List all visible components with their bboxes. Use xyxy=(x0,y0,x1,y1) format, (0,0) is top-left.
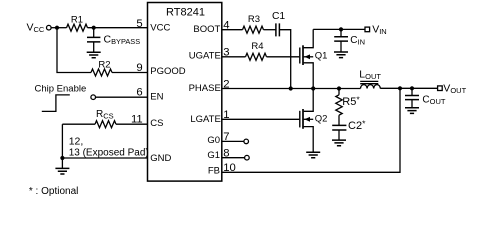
svg-text:FB: FB xyxy=(208,166,220,177)
terminal EN circle xyxy=(91,95,96,100)
wire C1 down to PHASE node xyxy=(279,30,290,89)
svg-text:RCS: RCS xyxy=(96,109,114,121)
wire BOOT pin to R3 xyxy=(222,29,243,31)
node exposed pad ground tee xyxy=(60,156,64,160)
node CBYPASS tap xyxy=(92,26,96,30)
wire C2 to ground xyxy=(338,130,340,140)
resistor R5 xyxy=(336,95,342,115)
wire RCS to CS pin xyxy=(116,123,148,125)
transistor Q2 source stub to ground xyxy=(304,127,314,152)
svg-text:R1: R1 xyxy=(71,14,83,25)
ground (COUT) xyxy=(405,108,419,114)
node R5 tap on PHASE xyxy=(337,86,341,90)
wire G1 pin stub xyxy=(222,157,245,159)
transistor Q2 body arrow xyxy=(304,117,310,122)
svg-text:R5*: R5* xyxy=(342,95,360,108)
transistor Q1 source stub down to PHASE xyxy=(304,63,314,89)
wire CBYPASS to ground xyxy=(93,42,95,52)
capacitor C1 xyxy=(276,23,280,36)
wire FB pin to VOUT node xyxy=(222,88,400,172)
node FB tap on VOUT xyxy=(398,86,402,90)
wire LGATE pin to Q2 gate xyxy=(222,118,299,120)
svg-text:13 (Exposed Pad): 13 (Exposed Pad) xyxy=(69,148,149,159)
wire COUT to ground xyxy=(411,100,413,108)
wire CIN stem xyxy=(340,29,342,36)
wire pad ground stem xyxy=(61,158,63,168)
svg-text:G0: G0 xyxy=(207,135,220,146)
svg-text:Chip Enable: Chip Enable xyxy=(35,83,87,94)
svg-text:PHASE: PHASE xyxy=(189,83,221,94)
wire COUT stem xyxy=(411,88,413,95)
ground (exposed pad) xyxy=(55,168,69,174)
wire Q1 drain to VIN terminal xyxy=(313,28,365,30)
terminal G0 circle xyxy=(244,139,249,144)
wire CS corner to RCS xyxy=(62,123,95,125)
wire EN terminal to EN pin xyxy=(96,96,148,98)
terminal G1 circle xyxy=(245,155,250,160)
svg-text:Q1: Q1 xyxy=(315,51,328,62)
transistor Q1 body arrow xyxy=(304,54,310,59)
ground (Q2 source) xyxy=(306,152,320,158)
capacitor CIN xyxy=(334,37,348,41)
transistor Q2 gate bar xyxy=(299,111,301,128)
inductor LOUT core bars xyxy=(360,81,378,83)
wire R5 stem xyxy=(338,89,340,95)
capacitor CBYPASS xyxy=(87,37,100,42)
node Q1/Q2 PHASE junction xyxy=(311,86,315,90)
resistor R2 xyxy=(91,69,112,76)
chip enable step symbol xyxy=(42,95,70,112)
wire UGATE pin to R4 xyxy=(222,56,246,58)
svg-text:Q2: Q2 xyxy=(315,113,328,124)
ground (C2) xyxy=(332,140,346,146)
transistor Q1 drain stub xyxy=(304,29,314,47)
wire R5 to C2 xyxy=(338,115,340,125)
terminal VOUT square xyxy=(438,86,443,91)
svg-text:R2: R2 xyxy=(98,60,110,71)
transistor Q1 channel bar xyxy=(302,45,304,65)
svg-text:UGATE: UGATE xyxy=(189,50,221,61)
svg-text:GND: GND xyxy=(150,153,171,164)
wire CS branch down to pad ground xyxy=(61,124,63,158)
svg-text:PGOOD: PGOOD xyxy=(150,66,186,77)
svg-text:6: 6 xyxy=(136,86,142,98)
svg-text:R4: R4 xyxy=(251,41,263,52)
terminal VCC circle xyxy=(47,25,52,30)
transistor Q2 channel bar xyxy=(302,109,304,129)
svg-text:G1: G1 xyxy=(207,150,220,161)
svg-text:R3: R3 xyxy=(248,14,260,25)
wire VCC terminal to R1 xyxy=(51,27,66,29)
svg-text:LOUT: LOUT xyxy=(359,69,381,82)
inductor LOUT coils xyxy=(361,85,381,89)
transistor Q1 body stub xyxy=(304,56,314,58)
svg-text:VOUT: VOUT xyxy=(443,83,466,96)
node CIN tap on VIN xyxy=(339,27,343,31)
svg-text:EN: EN xyxy=(150,92,163,103)
terminal VIN square xyxy=(365,27,370,32)
ground (CBYPASS) xyxy=(87,52,101,58)
svg-text:RT8241: RT8241 xyxy=(166,6,205,18)
svg-text:BOOT: BOOT xyxy=(193,24,220,35)
transistor Q1 gate bar xyxy=(299,48,301,64)
svg-text:COUT: COUT xyxy=(422,94,445,106)
wire R4 to Q1 gate xyxy=(267,56,300,58)
capacitor C2 xyxy=(332,125,346,130)
ground (CIN) xyxy=(334,52,348,58)
wire R1 to VCC pin xyxy=(88,27,148,29)
svg-text:CS: CS xyxy=(150,118,163,129)
transistor Q2 drain stub up to PHASE xyxy=(304,89,314,112)
svg-text:C1: C1 xyxy=(272,11,285,22)
op-amp U1 RT8241 IC body xyxy=(148,3,222,182)
wire G0 pin stub xyxy=(222,140,244,142)
wire CBYPASS stem xyxy=(93,28,95,38)
node VCC junction at R1 left xyxy=(55,26,59,30)
wire VCC branch down to R2 row xyxy=(57,28,91,73)
svg-text:12,: 12, xyxy=(69,135,84,147)
resistor RCS xyxy=(95,121,116,128)
resistor R1 xyxy=(67,24,88,31)
svg-text:VIN: VIN xyxy=(372,24,387,37)
svg-text:C2*: C2* xyxy=(348,119,366,132)
resistor R3 xyxy=(243,26,264,33)
wire LOUT to VOUT terminal xyxy=(380,87,437,89)
svg-text:VCC: VCC xyxy=(27,21,45,34)
svg-text:VCC: VCC xyxy=(150,22,170,33)
wire R3 to C1 xyxy=(264,29,276,31)
node C1 to PHASE junction xyxy=(289,86,293,90)
wire pad ground to GND pin xyxy=(62,157,147,159)
svg-text:CIN: CIN xyxy=(350,35,365,47)
svg-text:* : Optional: * : Optional xyxy=(29,186,78,197)
svg-text:LGATE: LGATE xyxy=(190,114,220,125)
svg-text:CBYPASS: CBYPASS xyxy=(104,34,141,47)
wire PHASE pin to LOUT xyxy=(222,88,361,90)
node COUT tap on VOUT xyxy=(410,86,414,90)
resistor R4 xyxy=(246,53,267,60)
transistor Q2 body stub xyxy=(304,118,314,120)
wire R2 to PGOOD pin xyxy=(112,72,148,74)
capacitor COUT xyxy=(405,96,419,100)
wire CIN to ground xyxy=(340,41,342,52)
